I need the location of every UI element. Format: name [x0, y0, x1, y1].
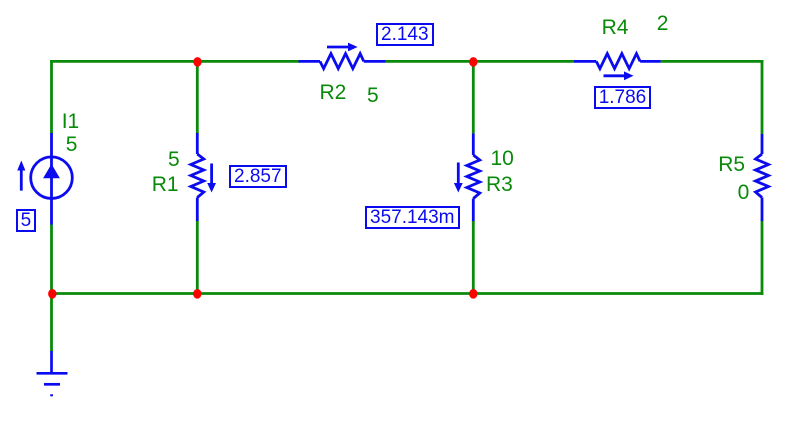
wire: top net, right segment — [661, 60, 764, 63]
R3 current reading 357.143m (boxed) — [365, 206, 460, 229]
resistor R4 — [574, 54, 661, 69]
I1 current direction arrow (up) — [17, 161, 25, 191]
R1 value 5 — [168, 149, 180, 170]
wire: R1 branch upper — [196, 61, 199, 134]
R1 current arrow (down) — [207, 164, 216, 193]
R4 current arrow (right) — [604, 71, 634, 80]
resistor R5 — [756, 134, 769, 221]
label R3 — [486, 174, 513, 195]
R5 value 0 — [738, 182, 750, 203]
R2 value 5 — [367, 85, 379, 106]
label R4 — [602, 17, 629, 38]
label R2 — [320, 82, 347, 103]
junction node: bottom of R1 — [193, 289, 201, 299]
junction node: bottom of R3 — [469, 289, 477, 299]
wire: right branch upper (to R5) — [761, 60, 764, 134]
resistor R1 — [191, 133, 204, 221]
resistor R2 — [299, 54, 386, 69]
I1 value 5 — [66, 134, 78, 155]
wire: ground stub — [50, 292, 53, 351]
wire: left branch lower (from I1) — [50, 224, 53, 295]
junction node: top of R1 — [193, 57, 201, 67]
ground symbol — [37, 351, 68, 395]
I1 ammeter reading 5 (boxed) — [16, 209, 37, 232]
R2 current arrow (right) — [327, 43, 358, 52]
current source I1 — [31, 133, 73, 225]
R4 current reading 1.786 (boxed) — [594, 86, 652, 109]
wire: bottom net — [50, 292, 763, 295]
wire: top net, middle segment — [386, 60, 574, 63]
R3 current arrow (down) — [454, 163, 463, 193]
resistor R3 — [467, 134, 480, 222]
wire: left branch upper (to I1) — [50, 60, 53, 134]
R1 current reading 2.857 (boxed) — [229, 165, 287, 188]
wire: R3 branch lower — [472, 221, 475, 295]
R2 current reading 2.143 (boxed) — [376, 23, 434, 46]
label R5 — [718, 154, 745, 175]
R3 value 10 — [491, 148, 514, 169]
wire: right branch lower (from R5) — [761, 221, 764, 295]
junction node: top of R3 — [469, 57, 477, 67]
label R1 — [152, 174, 179, 195]
junction node: bottom left (ground) — [48, 289, 56, 299]
wire: R1 branch lower — [196, 221, 199, 295]
label I1 — [62, 111, 80, 132]
wire: R3 branch upper — [472, 61, 475, 134]
R4 value 2 — [657, 13, 669, 34]
wire: top net, left segment — [50, 60, 299, 63]
